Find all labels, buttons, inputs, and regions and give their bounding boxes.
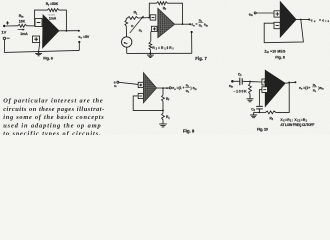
output terminal dot [78,30,80,32]
junction bottom node [259,112,261,114]
lower output terminal dot (Fig.7) [191,31,193,33]
lower output terminal dot [78,41,80,43]
potentiometer R1 body (bent resistor) [125,17,139,27]
wire lower terminal to rail (Fig.7) [191,32,193,53]
resistor R2 (Fig.7) [149,41,152,50]
non-inverting input box + (Fig.9) [138,82,143,87]
output wire (Fig.9) [157,87,170,89]
feedback left/top wire (Fig.7) [149,3,155,17]
label ein (Fig.9) [114,81,117,89]
op-amp U5 (Fig.10) [265,70,285,106]
resistor R1 (Fig.9) [162,112,165,120]
non-inverting input box + (Fig.10) [262,79,268,85]
wire C2 to bottom node [258,109,260,112]
op-amp U1 (Fig.6) [43,15,60,48]
wire source to pot [125,27,127,37]
paper background [0,0,330,135]
ground (Fig.6) [35,52,42,56]
resistor Rin [17,24,28,27]
input terminal + (Fig.6) [3,21,9,27]
junction divider tap [162,110,164,112]
bottom rail (Fig.6) [4,40,79,53]
junction feedback/output (Fig.10) [288,82,290,84]
input terminal (Fig.10) [231,80,234,83]
wire source to rail [126,47,128,53]
resistor R3 100K [249,82,252,95]
wire R1 to ground [162,120,164,123]
wire + input to rail [39,43,40,52]
ground (Fig.9) [159,124,167,127]
current arrow 1mA [18,29,29,37]
formula eo =(1+ Rf/R1) ein [172,83,197,93]
resistor R1 (Fig.10) [265,111,278,114]
junction feedback/input [148,17,150,19]
output terminal dot (Fig.10) [294,81,296,83]
input terminal (Fig.8) [254,12,256,14]
wire + input down to R2 [150,31,152,41]
feedback right wire (Fig.7) [169,3,183,24]
junction feedback/output [66,30,68,32]
output dot (Fig.9) [166,87,168,89]
output wire (Fig.7) [175,23,190,25]
op-amp U2 (Fig.7) [158,8,175,38]
inverting input box - (Fig.8) [274,22,280,28]
wire input to resistor [5,25,17,27]
feedback loop wire (Fig.8) [264,20,303,43]
wire C1 to + input [242,80,262,83]
op-amp U4 (Fig.9) [143,73,156,103]
wire lower terminal to rail [78,42,80,50]
input terminal (Fig.9) [117,81,119,83]
wire resistor to minus input [28,25,44,27]
junction at ground [38,51,40,53]
source ein circle (Fig.7) [122,37,132,47]
wire output junction down [162,88,164,94]
feedback wire up to output [277,82,289,112]
resistor Rf (Fig.9) [162,94,165,102]
wire pot to minus input [139,17,150,19]
wire - input to C2 [259,90,262,106]
label eo = Rf/R1 ein [191,19,208,29]
resistor Rf (Fig.7) [156,2,169,5]
junction feedback/output (Fig.7) [182,23,184,25]
wire Rf to R1 [162,102,164,112]
ground (Fig.10 input) [247,95,254,102]
output terminal circle (Fig.9) [169,87,171,89]
inverting input box - (Fig.7) [150,15,156,20]
non-inverting input box + (Fig.8) [274,11,280,17]
output wire (Fig.8) [296,19,309,21]
junction feedback/output (Fig.8) [300,19,302,21]
scan noise overlay (decorative) [0,0,330,135]
input wire (Fig.9) [119,82,139,84]
wire R2 to rail [149,51,151,54]
inverting input box - (Fig.9) [138,93,143,98]
inverting input box - [35,19,42,27]
feedback wire left and top (Fig.6) [35,10,47,26]
junction R3 tap [249,81,251,83]
capacitor C1 [240,78,242,86]
junction divider/output [162,87,164,89]
ground (Fig.7) [147,53,154,57]
resistor Rf (Fig.6) [46,9,60,12]
ground (Fig.10 bottom) [250,112,257,117]
output wire (Fig.10) [285,81,295,84]
input wire (Fig.8) [256,12,274,14]
output wire (Fig.6) [59,30,79,32]
bottom wire to R1 [254,111,265,113]
formula eo =(1+ Rf/R1) ein (Fig.10) [299,83,324,93]
op-amp U3 (Fig.8) [280,2,296,38]
bottom rail (Fig.7) [127,52,192,54]
output terminal dot (Fig.8) [308,19,310,21]
inverting input box - (Fig.10) [262,87,268,93]
feedback wire right (Fig.6) [60,10,66,31]
capacitor C2 [256,106,263,109]
potentiometer wiper arrow [130,16,144,33]
wire - input to divider [133,96,163,111]
junction R2/rail [150,52,152,54]
non-inverting input box + [33,36,40,43]
non-inverting input box + (Fig.7) [151,26,157,31]
wire terminal to C1 [234,80,240,82]
output terminal dot (Fig.7) [189,23,191,25]
input terminal - (Fig.6) [3,37,9,39]
